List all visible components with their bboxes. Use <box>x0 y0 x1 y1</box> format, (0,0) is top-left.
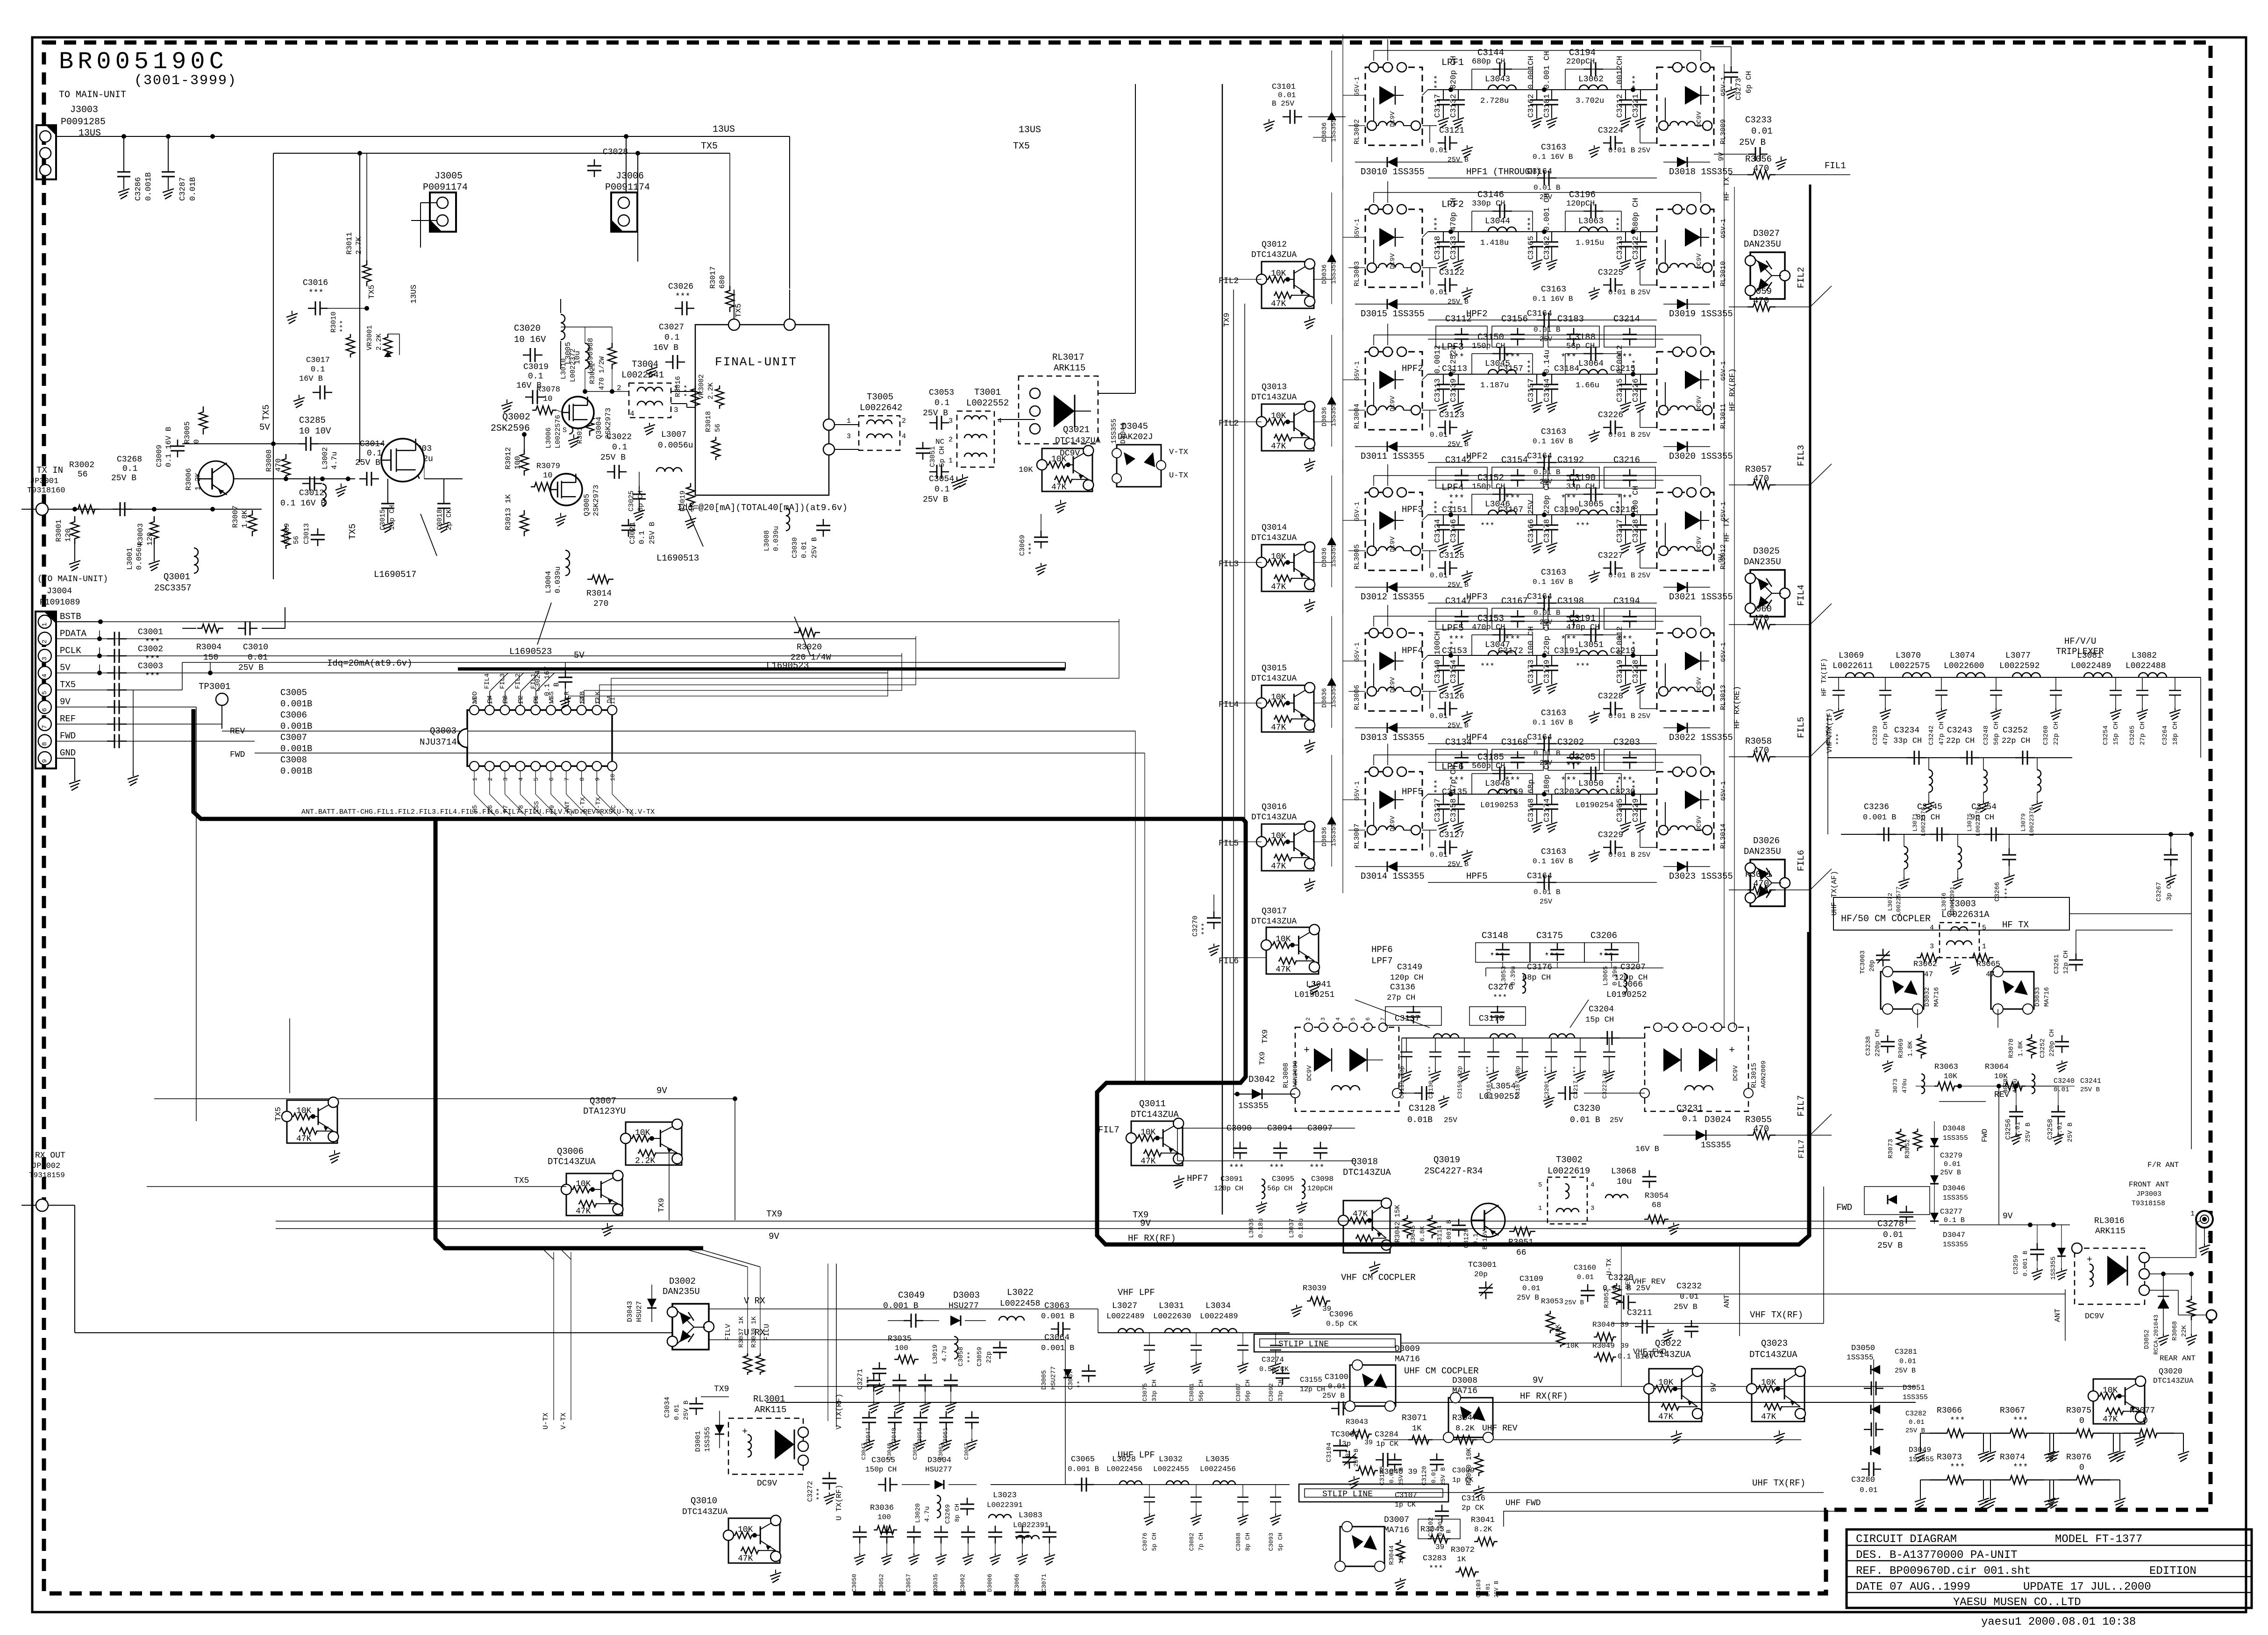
svg-text:1: 1 <box>2190 1210 2195 1218</box>
svg-text:25V B: 25V B <box>1448 860 1469 868</box>
svg-text:C3157: C3157 <box>1498 364 1523 374</box>
svg-text:L0022391: L0022391 <box>1013 1521 1049 1529</box>
svg-text:C3185: C3185 <box>1477 752 1504 762</box>
svg-text:P4: P4 <box>486 695 494 703</box>
svg-text:270: 270 <box>593 599 608 609</box>
svg-text:Q3014: Q3014 <box>1262 523 1287 533</box>
svg-text:L1690513: L1690513 <box>656 553 699 563</box>
svg-text:L0190254: L0190254 <box>1576 801 1614 810</box>
svg-text:10u: 10u <box>1617 1177 1632 1187</box>
svg-text:C3090: C3090 <box>1227 1124 1252 1133</box>
svg-text:0.001B: 0.001B <box>280 699 312 709</box>
svg-text:***: *** <box>866 1376 874 1388</box>
svg-text:RL3005: RL3005 <box>1353 544 1361 569</box>
svg-text:R3052: R3052 <box>1603 1288 1611 1308</box>
svg-text:Q3020: Q3020 <box>2159 1367 2182 1376</box>
svg-text:C3259: C3259 <box>2012 1255 2020 1274</box>
svg-text:C3101: C3101 <box>1272 83 1296 92</box>
svg-text:C3179 220p CH: C3179 220p CH <box>1543 621 1552 683</box>
svg-text:68: 68 <box>1652 1201 1661 1210</box>
wire 13US J3005 drop <box>637 153 638 262</box>
svg-text:1SS355: 1SS355 <box>1943 1241 1968 1249</box>
connector TX IN <box>36 503 48 515</box>
svg-text:C3026: C3026 <box>668 282 693 291</box>
svg-text:0.001: 0.001 <box>1437 1518 1444 1536</box>
svg-text:1SS355: 1SS355 <box>1110 419 1118 444</box>
inductor L3075 L0022376 <box>1983 770 1987 792</box>
wire band top rail <box>1374 475 1701 476</box>
svg-text:C3183: C3183 <box>1557 314 1584 324</box>
svg-text:5V: 5V <box>574 650 585 661</box>
wire TX5 left drop <box>273 153 274 579</box>
svg-text:1.66u: 1.66u <box>1576 381 1599 390</box>
svg-text:***: *** <box>1950 1463 1965 1472</box>
svg-text:0.1 16V B: 0.1 16V B <box>1533 153 1573 161</box>
svg-text:***: *** <box>1576 522 1590 531</box>
svg-text:C3213 ***: C3213 *** <box>1616 217 1625 260</box>
svg-text:68p CH: 68p CH <box>1522 974 1551 982</box>
svg-text:8.2K: 8.2K <box>1474 1525 1492 1534</box>
svg-text:1SS355: 1SS355 <box>1330 403 1338 427</box>
svg-text:0.01: 0.01 <box>248 653 268 662</box>
svg-text:RL3003: RL3003 <box>1353 261 1361 286</box>
svg-text:L3031: L3031 <box>1159 1301 1184 1311</box>
svg-text:220p CH: 220p CH <box>2048 1029 2056 1057</box>
capacitors shunt pair mid <box>1536 794 1537 804</box>
svg-text:4.7u: 4.7u <box>330 452 339 469</box>
svg-text:MA716: MA716 <box>1395 1355 1420 1364</box>
svg-text:25V B: 25V B <box>1895 1367 1916 1375</box>
svg-text:10K: 10K <box>738 1525 753 1535</box>
capacitor C3257 *** <box>1838 677 1839 690</box>
svg-text:C3066: C3066 <box>1013 1574 1020 1592</box>
svg-text:25V B: 25V B <box>1440 1467 1447 1486</box>
svg-text:D3036: D3036 <box>1321 688 1328 708</box>
svg-text:C3005: C3005 <box>280 688 307 698</box>
svg-text:L3022: L3022 <box>1007 1287 1034 1298</box>
svg-text:C3165 ***: C3165 *** <box>1527 217 1536 260</box>
svg-text:L3051: L3051 <box>1578 640 1604 650</box>
svg-text:U-TX: U-TX <box>1605 1258 1613 1275</box>
wire band main filter line <box>1428 514 1657 515</box>
svg-text:DTC143ZUA: DTC143ZUA <box>1251 917 1297 926</box>
svg-text:47K: 47K <box>576 1207 591 1216</box>
svg-text:TX5: TX5 <box>1013 141 1030 152</box>
svg-text:T3005: T3005 <box>867 392 893 402</box>
wire to stripline <box>1254 1333 1290 1334</box>
svg-text:9p CH: 9p CH <box>1970 813 1994 822</box>
svg-text:0.01 B: 0.01 B <box>1608 571 1635 580</box>
svg-text:L3010: L3010 <box>560 358 568 379</box>
svg-text:***: *** <box>1835 733 1843 745</box>
svg-text:47K: 47K <box>1271 862 1286 871</box>
svg-text:C3254: C3254 <box>1971 803 1997 812</box>
svg-text:***: *** <box>1229 1164 1244 1173</box>
capacitor C3047 b <box>869 1411 870 1418</box>
svg-text:C3063: C3063 <box>1044 1301 1070 1311</box>
diode pair FWD detector <box>1864 1187 1930 1215</box>
diode stack D3051 D3049 <box>1873 1359 1874 1450</box>
vertical feed wires <box>1331 192 1332 304</box>
svg-text:L3044: L3044 <box>1485 217 1510 226</box>
svg-text:C3218: C3218 <box>1610 505 1635 515</box>
svg-text:Q3006: Q3006 <box>557 1146 584 1157</box>
svg-text:L0022577: L0022577 <box>1895 887 1902 916</box>
svg-text:C3150: C3150 <box>1477 332 1504 342</box>
svg-text:TX9: TX9 <box>1261 1029 1270 1044</box>
svg-text:***: *** <box>1309 1164 1324 1173</box>
svg-text:C3167: C3167 <box>1498 505 1523 515</box>
svg-text:F/R ANT: F/R ANT <box>2147 1161 2179 1169</box>
svg-text:C3215: C3215 <box>1610 364 1635 374</box>
svg-text:1.915u: 1.915u <box>1576 239 1604 248</box>
svg-text:D3009: D3009 <box>1395 1344 1420 1354</box>
svg-text:0.1: 0.1 <box>612 443 627 452</box>
svg-text:TX9: TX9 <box>1258 1052 1267 1065</box>
svg-text:0.01: 0.01 <box>1430 146 1448 155</box>
svg-text:J3006: J3006 <box>616 171 644 182</box>
diode D3011 1SS355 <box>1355 446 1462 447</box>
wire band top rail <box>1374 616 1701 617</box>
capacitor C3267 3p CJ <box>2170 834 2171 850</box>
relay RL3013 G5V-1 <box>1657 633 1714 711</box>
svg-text:Q3016: Q3016 <box>1262 803 1287 812</box>
svg-text:DTC143ZUA: DTC143ZUA <box>1251 813 1297 822</box>
svg-text:FWD: FWD <box>60 731 76 741</box>
svg-text:9V: 9V <box>769 1231 779 1242</box>
svg-text:DC9V: DC9V <box>1389 677 1397 693</box>
svg-text:C3071: C3071 <box>1041 1574 1048 1592</box>
svg-text:20p: 20p <box>1869 960 1876 972</box>
svg-text:D3022 1SS355: D3022 1SS355 <box>1669 732 1733 743</box>
wire FWD long <box>1144 753 1145 1083</box>
capacitor C3062 <box>968 1526 969 1532</box>
svg-text:D3024: D3024 <box>1705 1115 1731 1125</box>
svg-text:C3190: C3190 <box>1554 505 1579 515</box>
capacitor C3056 b <box>920 1411 921 1418</box>
svg-text:DC9V: DC9V <box>2085 1312 2104 1321</box>
capacitor C3266 *** <box>2009 834 2010 850</box>
svg-text:C3201 ***: C3201 *** <box>1543 1066 1550 1099</box>
svg-text:EDITION: EDITION <box>2149 1565 2197 1578</box>
capacitors C3001-C3003 *** <box>107 638 114 640</box>
svg-text:HSU277: HSU277 <box>949 1301 979 1311</box>
svg-text:C3232: C3232 <box>1676 1282 1702 1291</box>
svg-text:D3020 1SS355: D3020 1SS355 <box>1669 451 1733 462</box>
svg-text:0.1 16V B: 0.1 16V B <box>164 427 173 467</box>
svg-text:R3077: R3077 <box>2130 1406 2155 1415</box>
svg-text:NJU3714G: NJU3714G <box>420 737 462 747</box>
svg-text:DTC143ZUA: DTC143ZUA <box>1251 250 1297 260</box>
diode D3014 1SS355 <box>1355 866 1462 867</box>
svg-text:L3001: L3001 <box>126 547 134 570</box>
svg-text:R3043: R3043 <box>1346 1418 1368 1426</box>
svg-text:1SS355: 1SS355 <box>704 1427 712 1452</box>
svg-text:16V B: 16V B <box>299 375 323 384</box>
svg-text:C3204: C3204 <box>1589 1005 1614 1014</box>
capacitor C3280 0.01 <box>1861 1469 1869 1470</box>
svg-text:L0022455: L0022455 <box>1153 1465 1189 1473</box>
svg-text:CLK: CLK <box>594 691 602 703</box>
svg-text:22p CH: 22p CH <box>2053 722 2060 745</box>
diode D3010 1SS355 <box>1355 162 1462 163</box>
svg-text:R3054: R3054 <box>1645 1192 1669 1201</box>
svg-text:10K: 10K <box>1944 1072 1957 1081</box>
svg-text:C3097: C3097 <box>1307 1124 1333 1133</box>
svg-text:1: 1 <box>949 457 953 465</box>
svg-text:C3167: C3167 <box>1501 596 1528 606</box>
svg-text:D3012 1SS355: D3012 1SS355 <box>1361 592 1425 602</box>
svg-text:BR005190C: BR005190C <box>59 48 228 76</box>
svg-text:Q3021: Q3021 <box>1063 425 1090 435</box>
relay RL3002 G5V-1 <box>1365 67 1422 145</box>
svg-text:C3198: C3198 <box>1557 596 1584 606</box>
svg-text:C3098: C3098 <box>1311 1175 1334 1183</box>
svg-text:GND: GND <box>60 748 76 758</box>
capacitor C3264 18p CH <box>2175 677 2175 690</box>
svg-text:L3072: L3072 <box>1887 893 1894 911</box>
svg-text:U-TX: U-TX <box>1169 471 1188 480</box>
svg-text:DTC143ZUA: DTC143ZUA <box>1055 436 1100 446</box>
svg-text:C3065: C3065 <box>1071 1455 1095 1464</box>
wire 5V drop <box>359 153 360 462</box>
svg-text:UHF CM COCPLER: UHF CM COCPLER <box>1404 1366 1479 1376</box>
capacitor C3071 <box>1049 1526 1050 1532</box>
svg-text:0.1 16V: 0.1 16V <box>543 667 551 696</box>
svg-text:B 25V: B 25V <box>1272 100 1294 108</box>
svg-text:Q3012: Q3012 <box>1262 240 1287 249</box>
capacitors C3113 0.0012 C3139 0.252u shunt pair <box>1443 374 1444 384</box>
svg-text:HF TX: HF TX <box>2002 920 2029 930</box>
relay RL3003 G5V-1 <box>1365 209 1422 287</box>
transistor Q3001 2SC3357 <box>198 461 234 497</box>
diode network D3033 MA716 <box>1991 972 2034 1009</box>
svg-text:TX9: TX9 <box>657 1198 666 1212</box>
svg-text:C3227: C3227 <box>1598 551 1623 561</box>
svg-text:3073: 3073 <box>1892 1079 1899 1093</box>
svg-text:10K: 10K <box>1271 412 1286 421</box>
svg-text:8p CH: 8p CH <box>1244 1533 1251 1551</box>
svg-text:0.01: 0.01 <box>1944 1160 1961 1168</box>
svg-text:C3248: C3248 <box>1983 725 1990 745</box>
title block table <box>1847 1529 2252 1608</box>
svg-text:C3017: C3017 <box>306 356 330 365</box>
svg-text:L0022456: L0022456 <box>1106 1465 1142 1473</box>
svg-text:DTC143ZUA: DTC143ZUA <box>1251 393 1297 402</box>
svg-text:25V B: 25V B <box>1564 1299 1584 1307</box>
svg-text:C3163: C3163 <box>1541 427 1566 437</box>
svg-text:G5V-1: G5V-1 <box>1720 77 1727 96</box>
svg-text:C3127 ***: C3127 *** <box>1434 779 1442 822</box>
svg-text:1p CK: 1p CK <box>1452 1476 1473 1484</box>
svg-text:***: *** <box>1505 775 1520 786</box>
svg-text:L1690523: L1690523 <box>509 647 552 657</box>
svg-text:L0022376: L0022376 <box>2028 807 2035 836</box>
svg-text:2.2K: 2.2K <box>635 1156 655 1166</box>
svg-text:C3271: C3271 <box>856 1369 864 1390</box>
svg-text:***: *** <box>1505 634 1520 645</box>
wire band8 to relays <box>1399 1093 1406 1094</box>
svg-text:G5V-1: G5V-1 <box>1720 642 1727 662</box>
svg-text:C3053: C3053 <box>929 388 954 398</box>
vertical feed wires <box>1331 755 1332 867</box>
svg-text:0.1: 0.1 <box>528 372 543 381</box>
svg-text:0.01: 0.01 <box>1328 1382 1346 1391</box>
svg-text:0.001B: 0.001B <box>280 721 312 732</box>
svg-text:D3052: D3052 <box>2143 1329 2151 1349</box>
svg-text:0.0056u: 0.0056u <box>658 441 693 450</box>
svg-text:4: 4 <box>1930 924 1934 932</box>
diode D3024 1SS355 <box>1663 1135 1729 1136</box>
wire RX line <box>48 1205 75 1206</box>
svg-text:***: *** <box>1429 1564 1443 1573</box>
FET Q3005 2SK2973 <box>550 474 582 505</box>
svg-text:R3012: R3012 <box>504 447 513 469</box>
svg-text:6: 6 <box>548 777 555 781</box>
connector J3004 <box>36 611 56 768</box>
svg-text:L3081: L3081 <box>2077 651 2102 661</box>
svg-text:RL3008: RL3008 <box>1282 1063 1290 1088</box>
svg-text:REAR ANT: REAR ANT <box>2160 1354 2196 1363</box>
svg-text:***: *** <box>1490 952 1505 961</box>
svg-text:R3064: R3064 <box>1985 1063 2009 1072</box>
svg-text:R3013 1K: R3013 1K <box>504 494 513 530</box>
svg-text:5V: 5V <box>259 422 270 433</box>
diode D3021 1SS355 <box>1663 587 1710 588</box>
svg-text:L3032: L3032 <box>1159 1455 1183 1464</box>
triplexer bottom row <box>1841 834 2191 835</box>
svg-text:27p CH: 27p CH <box>1387 994 1415 1002</box>
VHF LPF chain <box>1098 1332 1290 1333</box>
svg-text:Idq=20mA(at9.6v): Idq=20mA(at9.6v) <box>327 658 412 668</box>
capacitor C3088 8p CH <box>1242 1485 1243 1497</box>
svg-text:***: *** <box>1201 923 1209 935</box>
svg-text:25V B: 25V B <box>2067 1123 2074 1142</box>
wire 5V rail <box>182 443 299 444</box>
svg-text:C3003: C3003 <box>138 661 163 671</box>
svg-text:10K: 10K <box>1994 1072 2008 1081</box>
diode stack D3048 D3046 D3047 <box>1934 1121 1935 1224</box>
svg-text:B 16V: B 16V <box>1482 1230 1489 1250</box>
svg-text:1K: 1K <box>1412 1424 1422 1433</box>
svg-text:0.01: 0.01 <box>1430 851 1448 859</box>
svg-text:VHF LPF: VHF LPF <box>1118 1287 1155 1298</box>
svg-text:MA716: MA716 <box>1384 1526 1409 1535</box>
svg-text:C3279: C3279 <box>1940 1152 1962 1160</box>
capacitors C3117 *** C3132 820p CH shunt pair <box>1443 90 1444 100</box>
svg-text:C3174 180p CH: C3174 180p CH <box>1543 760 1552 822</box>
svg-text:1SS355: 1SS355 <box>1330 544 1338 567</box>
svg-text:DTC143ZUA: DTC143ZUA <box>548 1157 596 1167</box>
svg-text:C3203: C3203 <box>1613 737 1640 747</box>
svg-text:0.01 B: 0.01 B <box>1608 712 1635 720</box>
svg-text:C3211: C3211 <box>1627 1308 1652 1318</box>
svg-text:66: 66 <box>1516 1248 1526 1258</box>
svg-text:25V B: 25V B <box>1448 441 1469 448</box>
svg-text:+: + <box>742 1427 748 1437</box>
svg-text:0.01B: 0.01B <box>189 177 198 201</box>
svg-text:0.01 B: 0.01 B <box>1533 326 1561 334</box>
svg-text:25V B: 25V B <box>1517 1294 1539 1302</box>
svg-text:C3027: C3027 <box>659 323 684 332</box>
svg-text:R3041: R3041 <box>1471 1516 1495 1525</box>
svg-text:2: 2 <box>2207 1231 2211 1239</box>
capacitor C3082 7p CH <box>1196 1485 1197 1497</box>
svg-text:39: 39 <box>1364 1439 1373 1447</box>
svg-text:C3278: C3278 <box>1877 1219 1904 1229</box>
svg-text:0: 0 <box>193 439 201 444</box>
svg-text:C3182 0.001 CH: C3182 0.001 CH <box>1543 193 1552 260</box>
svg-text:D3014 1SS355: D3014 1SS355 <box>1361 871 1425 881</box>
relay RL3015 AGN2009 <box>1645 1027 1748 1111</box>
svg-text:***: *** <box>308 289 323 298</box>
svg-text:L3002: L3002 <box>321 447 329 469</box>
svg-text:RL3014: RL3014 <box>1719 824 1727 849</box>
svg-text:100: 100 <box>895 1344 908 1352</box>
svg-text:25V B: 25V B <box>1674 1303 1697 1312</box>
svg-text:25V B: 25V B <box>1940 1169 1961 1177</box>
inductor L3036 0.18u <box>1262 1179 1265 1199</box>
svg-text:C3056: C3056 <box>912 1443 919 1460</box>
svg-text:U RX: U RX <box>744 1328 765 1338</box>
svg-text:C3052: C3052 <box>878 1574 885 1592</box>
svg-text:22K: 22K <box>2181 1325 2188 1337</box>
svg-text:470u: 470u <box>1901 1079 1908 1093</box>
svg-text:***: *** <box>339 320 347 333</box>
svg-text:T9318160: T9318160 <box>27 486 65 495</box>
capacitors C3205 *** C3229 *** shunt pair <box>1625 794 1626 804</box>
svg-text:L0022611: L0022611 <box>1833 661 1873 671</box>
svg-text:C3172: C3172 <box>1498 647 1523 656</box>
svg-text:R3078: R3078 <box>536 385 560 394</box>
svg-text:D3036: D3036 <box>1321 407 1328 427</box>
svg-text:25V B: 25V B <box>923 495 948 505</box>
svg-text:25V B: 25V B <box>811 537 819 558</box>
svg-text:C3024: C3024 <box>534 670 542 691</box>
svg-text:22p CH: 22p CH <box>2002 737 2030 746</box>
svg-text:C3156: C3156 <box>1501 314 1528 324</box>
svg-text:R3058: R3058 <box>1745 736 1772 746</box>
capacitor D3006 <box>995 1526 996 1532</box>
svg-text:C3134: C3134 <box>1445 737 1472 747</box>
svg-text:D3043: D3043 <box>626 1301 634 1322</box>
svg-text:15p CH: 15p CH <box>2112 722 2120 745</box>
svg-text:STLIP LINE: STLIP LINE <box>1278 1340 1329 1349</box>
svg-text:D3046: D3046 <box>1943 1184 1965 1193</box>
capacitor C3048 b <box>894 1411 896 1418</box>
svg-text:2: 2 <box>487 777 494 781</box>
svg-text:0.1 16V B: 0.1 16V B <box>280 499 326 508</box>
svg-text:L0190252: L0190252 <box>1479 1092 1519 1102</box>
svg-text:C3272: C3272 <box>806 1481 814 1502</box>
svg-text:25V: 25V <box>1638 712 1650 720</box>
svg-text:C3095: C3095 <box>1272 1175 1294 1183</box>
svg-text:**: ** <box>1077 1380 1084 1388</box>
wire UHF TX(RF) drop right <box>1612 1440 1612 1493</box>
svg-text:C3148: C3148 <box>1482 931 1508 941</box>
svg-text:C3285: C3285 <box>299 415 326 426</box>
thick ANT bus elbow <box>193 709 1140 819</box>
svg-text:C3014: C3014 <box>360 440 385 449</box>
svg-text:6: 6 <box>41 708 49 711</box>
relay RL3014 G5V-1 <box>1657 772 1714 850</box>
svg-text:L0022642: L0022642 <box>860 403 902 413</box>
svg-text:R3073: R3073 <box>1937 1453 1962 1462</box>
svg-text:C3128: C3128 <box>1409 1103 1435 1114</box>
svg-text:L3006: L3006 <box>545 427 553 448</box>
svg-text:2.7K: 2.7K <box>355 236 363 255</box>
svg-text:L0022592: L0022592 <box>1999 661 2040 671</box>
